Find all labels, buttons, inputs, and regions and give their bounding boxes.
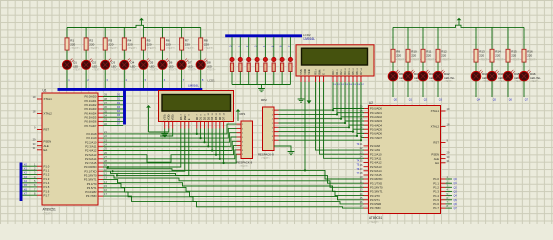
pin 21 P2.0 U1 (87, 130, 108, 136)
wire (523, 62, 525, 71)
svg-text:<TEXT>: <TEXT> (150, 69, 159, 72)
resistor R1 (65, 38, 80, 50)
svg-text:LED: LED (111, 65, 116, 68)
pin D2 LCD2 (339, 69, 345, 86)
wire (475, 81, 477, 97)
wire LCD1 D5 (215, 129, 217, 155)
wire LCD1 D1 (200, 129, 202, 139)
pin 39 P0.0 U1 (85, 93, 108, 99)
svg-text:LED: LED (150, 65, 155, 68)
wire P1.2 U2 stub (446, 186, 453, 188)
resistor R14 (490, 49, 505, 62)
wire P1.0 (22, 165, 37, 167)
pin 34 P0.5 U2 (360, 125, 383, 131)
pin D3 LCD2 (343, 67, 349, 86)
svg-text:<TEXT>: <TEXT> (240, 165, 250, 168)
wire LCD2 D2 to U2 P0.2 (341, 82, 364, 117)
wire LCD2 D4 to U2 P0.4 (349, 82, 364, 125)
pin 12 P3.2 U1 (84, 172, 108, 178)
pin D0 LCD1 (195, 114, 199, 129)
pin 28 P2.7 U2 (360, 171, 382, 177)
pin 30 ALE U2 (434, 155, 450, 161)
pin 7 P1.6 U2 (433, 200, 457, 206)
wire LCD2 D7 to U2 P0.7 (361, 82, 364, 138)
wire (491, 81, 493, 97)
wire LCD1 D6 (219, 129, 221, 159)
wire LCD1 VDD to VCC (149, 129, 169, 133)
wire P1.5 (22, 186, 37, 188)
wire P2.3 to RP1 (103, 137, 237, 146)
wire (123, 69, 125, 88)
pin 26 P2.5 U1 (85, 151, 107, 157)
wire P2.1 to RP1 (103, 128, 237, 138)
pin RW LCD2 (318, 69, 322, 82)
wire (142, 28, 144, 38)
pin 17 P3.7 U2 (360, 204, 381, 210)
pin 15 P3.5 U1 (87, 184, 108, 190)
pin 9 RST U2 (433, 139, 448, 145)
wire LCD2 D5 to U2 P0.5 (353, 82, 364, 129)
pin D2 LCD1 (202, 113, 206, 128)
wire P0.4 to bus (103, 112, 123, 114)
svg-text:220: 220 (495, 54, 500, 58)
wire P3.2 link to U2 (103, 175, 364, 187)
svg-text:<TEXT>: <TEXT> (426, 58, 436, 62)
node LCD2 labels (303, 33, 315, 41)
svg-text:220: 220 (204, 42, 209, 46)
svg-text:AT89C51: AT89C51 (43, 208, 56, 212)
svg-text:D3: D3 (206, 116, 210, 120)
wire LCD1 D3 (207, 129, 209, 147)
pin D7 LCD2 (359, 67, 365, 86)
svg-text:D1: D1 (199, 116, 203, 120)
wire RP2 pin to U2 P0.5 (279, 129, 354, 131)
wire P1.3 U2 stub (446, 190, 453, 192)
pin 13 P3.3 U1 (84, 176, 108, 182)
wire P3.1 link to U2 (103, 171, 364, 183)
power symbol VCC (457, 18, 462, 26)
wire LCD1 E (117, 129, 189, 176)
wire (281, 37, 283, 57)
bus (20, 163, 23, 202)
pin 18 XTAL2 U1 (33, 110, 53, 116)
power symbol down VEE (307, 96, 312, 104)
svg-text:<TEXT>: <TEXT> (185, 46, 195, 50)
svg-text:<TEXT>: <TEXT> (511, 58, 521, 62)
LED D15 (503, 70, 525, 83)
pin 36 P0.3 U2 (360, 117, 383, 123)
wire P2.0 to RP1 (103, 124, 237, 134)
wire (85, 69, 87, 88)
LED D8 (196, 58, 216, 71)
ground (298, 99, 305, 102)
resistor R7 (180, 38, 195, 50)
pin VSS LCD1 (163, 114, 167, 129)
wire (162, 28, 164, 38)
svg-text:220: 220 (396, 54, 401, 58)
svg-text:LED: LED (73, 65, 78, 68)
pin 2 P1.1 U1 (34, 167, 50, 173)
pin 16 P3.6 U1 (85, 188, 107, 194)
resistor R11 (421, 49, 436, 62)
svg-text:D7: D7 (222, 116, 226, 120)
pin 19 XTAL1 U2 (431, 107, 450, 113)
resistor R10 (406, 49, 421, 62)
LED D4 (120, 58, 140, 71)
wire P2.5 to RP1 (103, 146, 237, 163)
resistor pack RP1 RESPACK-8 (237, 112, 253, 168)
pin 32 P0.7 U2 (360, 134, 383, 140)
svg-text:<TEXT>: <TEXT> (261, 157, 271, 160)
pin 7 P1.6 U1 (34, 187, 50, 193)
LED D11 (418, 70, 440, 83)
svg-text:D5: D5 (214, 116, 218, 120)
pin 9 RST U1 (34, 126, 49, 132)
svg-text:P3.7/RD: P3.7/RD (86, 194, 97, 198)
wire (273, 37, 275, 57)
pin 8 P1.7 U1 (34, 191, 50, 197)
wire RP2 pin to U2 P0.7 (279, 138, 362, 141)
svg-text:LED: LED (188, 65, 193, 68)
pin 22 P2.1 U1 (87, 134, 108, 140)
ground (258, 89, 265, 92)
svg-text:<TEXT>: <TEXT> (70, 46, 80, 50)
wire P1.7 U2 stub (446, 207, 453, 209)
svg-text:<TEXT>: <TEXT> (204, 46, 214, 50)
pin 11 P3.1 U1 (84, 167, 107, 173)
wire (523, 27, 525, 49)
svg-text:LM016L: LM016L (188, 83, 199, 87)
svg-text:EA: EA (44, 148, 48, 152)
svg-text:P0.7/AD7: P0.7/AD7 (370, 136, 382, 140)
pin RW LCD1 (183, 114, 187, 129)
wire P3.3 link to U2 (103, 179, 364, 191)
wire LCD1 VSS to ground (164, 129, 166, 134)
wire (162, 50, 164, 60)
wire P2.4 to RP1 (103, 141, 237, 150)
svg-text:XTAL2: XTAL2 (431, 125, 440, 129)
pin D4 LCD2 (347, 68, 353, 86)
svg-text:RESPACK-8: RESPACK-8 (258, 153, 274, 157)
LED D14 (487, 70, 509, 83)
svg-text:XTAL1: XTAL1 (44, 97, 53, 101)
pin 17 P3.7 U1 (86, 192, 108, 198)
wire (392, 62, 394, 71)
wire (507, 62, 509, 71)
wire (239, 72, 241, 85)
wire P3.4 link to U2 (103, 184, 364, 196)
svg-text:D1: D1 (73, 61, 77, 65)
svg-text:P1.7: P1.7 (44, 193, 50, 197)
pin 5 P1.4 U1 (34, 179, 50, 185)
pin 11 P3.1 U2 (360, 179, 382, 185)
svg-text:D0: D0 (195, 116, 199, 120)
wire (273, 72, 275, 85)
svg-text:220: 220 (147, 42, 152, 46)
wire (239, 37, 241, 57)
pin D7 LCD1 (222, 112, 226, 128)
wire P2.7 to RP1 (103, 154, 237, 163)
wire P0.0 to bus (103, 96, 123, 98)
LED D16 (519, 70, 541, 83)
pin 29 PSEN U1 (33, 138, 52, 144)
svg-text:<TEXT>: <TEXT> (441, 58, 451, 62)
wire P0.1 to bus (103, 100, 123, 102)
wire (392, 27, 394, 49)
wire (475, 27, 477, 49)
wire (256, 72, 258, 85)
svg-text:<TEXT>: <TEXT> (527, 58, 537, 62)
wire LCD1 D7 (223, 129, 225, 164)
svg-text:<TEXT>: <TEXT> (73, 69, 82, 72)
pin D6 LCD1 (218, 112, 222, 128)
pin 26 P2.5 U2 (360, 163, 382, 169)
pin D3 LCD1 (206, 112, 210, 128)
resistor R2 (84, 38, 99, 50)
svg-text:RST: RST (44, 128, 50, 132)
wire LCD2 RS to U2 (316, 82, 365, 150)
wire RP2 pin to U2 P0.1 (279, 113, 338, 115)
svg-text:220: 220 (108, 42, 113, 46)
wire (523, 81, 525, 97)
pin 37 P0.2 U1 (85, 101, 108, 107)
op-amp U2 microcontroller AT89C51 (369, 101, 441, 224)
resistor R12 (436, 49, 451, 62)
wire (200, 50, 202, 60)
wire P1.1 U2 stub (446, 182, 453, 184)
wire (104, 50, 106, 60)
pin D0 LCD2 (331, 69, 337, 86)
svg-text:<TEXT>: <TEXT> (108, 46, 118, 50)
pin 10 P3.0 U1 (84, 163, 107, 169)
wire (231, 37, 233, 57)
pin 22 P2.1 U2 (360, 146, 381, 152)
wire P1.1 (22, 169, 37, 171)
pin 25 P2.4 U2 (360, 159, 382, 165)
svg-text:LCD1: LCD1 (208, 79, 216, 83)
pin 35 P0.4 U2 (360, 121, 383, 127)
pin 6 P1.5 U1 (34, 183, 50, 189)
wire (104, 69, 106, 88)
wire P1.7 (22, 194, 37, 196)
wire (289, 72, 291, 85)
svg-text:D2: D2 (202, 116, 206, 120)
svg-text:LED: LED (169, 65, 174, 68)
svg-text:<TEXT>: <TEXT> (43, 212, 53, 216)
pin 35 P0.4 U1 (85, 109, 108, 115)
resistor R9 (391, 49, 406, 62)
pin 27 P2.6 U1 (85, 155, 107, 161)
pin 14 P3.4 U1 (87, 180, 108, 186)
pin 14 P3.4 U2 (360, 192, 381, 198)
svg-text:LED: LED (131, 65, 136, 68)
svg-text:D5: D5 (150, 61, 154, 65)
pin 34 P0.5 U1 (85, 114, 108, 120)
pin 24 P2.3 U2 (360, 155, 382, 161)
power symbol VCC (146, 105, 151, 132)
LED D5 (139, 58, 159, 71)
pin 8 P1.7 U2 (433, 204, 457, 210)
svg-text:E: E (187, 118, 191, 120)
wire RP2 pin to U2 P0.3 (279, 121, 346, 123)
wire P1.3 (22, 178, 37, 180)
pin 4 P1.3 U1 (34, 175, 50, 181)
wire P2.6 to RP1 (103, 150, 237, 159)
wire (85, 28, 87, 38)
wire LCD1 RS (108, 129, 181, 168)
svg-text:220: 220 (426, 54, 431, 58)
wire (85, 50, 87, 60)
wire to ground (261, 85, 263, 89)
pin 16 P3.6 U2 (360, 200, 382, 206)
pin D1 LCD1 (199, 114, 203, 129)
wire P0.3 to bus (103, 108, 123, 110)
pin 18 XTAL2 U2 (431, 123, 450, 129)
wire LCD2 E to U2 (324, 82, 365, 158)
pin 30 ALE U1 (33, 142, 49, 148)
wire LCD2 D1 to U2 P0.1 (337, 82, 364, 113)
svg-text:220: 220 (70, 42, 75, 46)
svg-text:<TEXT>: <TEXT> (396, 58, 406, 62)
wire (289, 37, 291, 57)
pin 21 P2.0 U2 (360, 142, 381, 148)
pin 4 P1.3 U2 (433, 188, 457, 194)
svg-text:RP2: RP2 (261, 98, 267, 102)
pin 27 P2.6 U2 (360, 167, 382, 173)
wire LCD2 D0 to U2 P0.0 (333, 82, 364, 109)
power symbol VCC (139, 18, 144, 26)
svg-text:D7: D7 (188, 61, 192, 65)
svg-text:D6: D6 (169, 61, 173, 65)
wire (66, 50, 68, 60)
svg-text:<TEXT>: <TEXT> (92, 69, 101, 72)
svg-text:EA: EA (435, 161, 439, 165)
svg-text:D2: D2 (92, 61, 96, 65)
pin VDD LCD1 (167, 114, 171, 129)
pin D4 LCD1 (210, 112, 214, 128)
svg-text:<TEXT>: <TEXT> (530, 80, 539, 83)
svg-text:<TEXT>: <TEXT> (479, 58, 489, 62)
resistor R8 (199, 38, 214, 50)
pin 31 EA U1 (33, 146, 48, 152)
svg-text:<TEXT>: <TEXT> (444, 80, 453, 83)
svg-text:RS: RS (179, 116, 183, 120)
wire (491, 62, 493, 71)
pin 33 P0.6 U1 (85, 118, 108, 124)
ground (288, 152, 295, 155)
wire (123, 50, 125, 60)
svg-text:220: 220 (511, 54, 516, 58)
wire LCD1 VEE (160, 129, 173, 137)
wire P0.5 to bus (103, 116, 123, 118)
wire (264, 72, 266, 85)
wire P1.6 (22, 190, 37, 192)
svg-text:220: 220 (185, 42, 190, 46)
wire LCD2 VSS to ground (300, 82, 302, 99)
pin 1 P1.0 U2 (433, 175, 457, 181)
svg-text:<TEXT>: <TEXT> (111, 69, 120, 72)
pin 23 P2.2 U2 (360, 150, 382, 156)
svg-text:D12: D12 (444, 72, 450, 76)
svg-text:D16: D16 (530, 72, 536, 76)
bus (58, 88, 203, 91)
wire (437, 81, 439, 97)
wire (437, 27, 439, 49)
wire (422, 81, 424, 97)
wire (142, 50, 144, 60)
wire (281, 72, 283, 85)
wire LCD1 D4 (211, 129, 213, 151)
bus (123, 89, 126, 124)
wire (256, 37, 258, 57)
wire (422, 27, 424, 49)
svg-text:<TEXT>: <TEXT> (188, 69, 197, 72)
pin VEE LCD1 (171, 114, 175, 129)
wire (407, 81, 409, 97)
pin VEE LCD2 (307, 69, 311, 82)
LED D7 (177, 58, 197, 71)
wire (66, 28, 68, 38)
svg-text:<TEXT>: <TEXT> (166, 46, 176, 50)
wire middle LED common (232, 84, 290, 86)
pin 28 P2.7 U1 (85, 159, 107, 165)
pin 31 EA U2 (435, 159, 450, 165)
wire P3.7 link to U2 (103, 196, 364, 208)
svg-text:220: 220 (411, 54, 416, 58)
svg-text:220: 220 (441, 54, 446, 58)
wire (231, 72, 233, 85)
svg-text:U1: U1 (43, 89, 47, 93)
op-amp U1 microcontroller AT89C51 (42, 89, 98, 216)
wire RP2 common to ground (274, 146, 291, 152)
wire (162, 69, 164, 88)
wire P3.5 link to U2 (103, 188, 364, 200)
pin D1 LCD2 (335, 69, 341, 86)
wire (123, 28, 125, 38)
svg-text:RESPACK-8: RESPACK-8 (237, 161, 253, 165)
wire (66, 69, 68, 88)
wire LCD1 RW (113, 129, 185, 172)
wire LCD2 VDD down (304, 82, 306, 170)
pin 38 P0.1 U2 (360, 109, 383, 115)
pin E LCD2 (322, 69, 326, 82)
svg-text:220: 220 (479, 54, 484, 58)
wire LCD2 D6 to U2 P0.6 (357, 82, 364, 133)
svg-text:220: 220 (166, 42, 171, 46)
pin 3 P1.2 U1 (34, 171, 50, 177)
svg-text:LED: LED (207, 65, 212, 68)
node LCD1 labels (188, 79, 215, 88)
resistor R6 (161, 38, 176, 50)
pin VSS LCD2 (299, 69, 303, 82)
svg-text:220: 220 (89, 42, 94, 46)
pin 6 P1.5 U2 (433, 196, 457, 202)
resistor R5 (141, 38, 156, 50)
wire (507, 27, 509, 49)
wire (142, 69, 144, 88)
LCD1 display LM016L (159, 91, 234, 122)
pin 3 P1.2 U2 (433, 184, 457, 190)
svg-text:D9: D9 (399, 72, 403, 76)
wire P1.4 U2 stub (446, 195, 453, 197)
wire P0.6 to bus (103, 120, 123, 122)
LCD2 display LM016L (296, 45, 374, 76)
LED D10 (403, 70, 425, 83)
pin 24 P2.3 U1 (85, 143, 107, 149)
wire (248, 72, 250, 85)
wire RP2 pin to U2 P0.6 (279, 133, 358, 136)
svg-text:D6: D6 (218, 116, 222, 120)
